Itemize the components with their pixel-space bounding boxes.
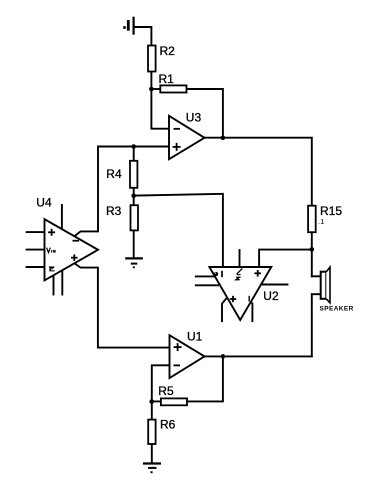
svg-text:R4: R4 (106, 167, 122, 181)
svg-text:R3: R3 (106, 204, 122, 218)
svg-text:R5: R5 (158, 384, 174, 398)
svg-text:R6: R6 (160, 418, 176, 432)
svg-text:R2: R2 (160, 44, 176, 58)
svg-text:U1: U1 (187, 329, 203, 343)
svg-text:R1: R1 (159, 72, 175, 86)
svg-text:.1: .1 (318, 217, 324, 226)
svg-text:SPEAKER: SPEAKER (320, 305, 354, 312)
svg-text:U3: U3 (186, 110, 202, 124)
svg-text:U2: U2 (263, 289, 279, 303)
svg-text:U4: U4 (36, 196, 52, 210)
svg-text:R15: R15 (320, 204, 342, 218)
